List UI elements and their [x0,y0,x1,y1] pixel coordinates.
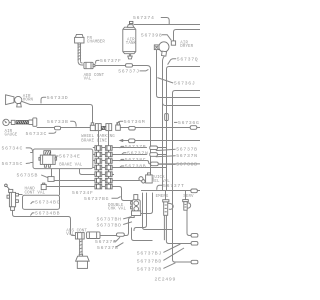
drain valve under tank [128,54,132,59]
svg-text:56737N: 56737N [127,150,149,156]
svg-text:2E2499: 2E2499 [155,276,177,282]
svg-text:56734E: 56734E [59,154,81,160]
label 56737J [118,69,148,75]
svg-text:56736G: 56736G [178,120,200,126]
ABS control valve front [84,62,95,68]
rail fittings r3 [95,159,112,164]
svg-text:56733D: 56733D [47,95,69,101]
frame box bottom left corner [132,228,153,241]
wire brake valve box down to hand valve box [59,169,61,195]
svg-text:56737BJ: 56737BJ [137,251,162,257]
rail fittings r4 [95,165,112,170]
wire top right box edge [174,30,201,41]
gauge hose end fitting [29,118,37,126]
label 56737B hose [97,243,123,252]
rung 3 [93,160,147,162]
label ABS CONT VAL rear [66,230,87,238]
wire ABS valve to right, down at x=150 [95,66,151,174]
label 56737BG [84,196,121,202]
svg-text:56737T: 56737T [163,183,185,189]
rail fittings r7 [95,184,112,189]
rail A top cross fitting [95,124,101,131]
brake valve [39,151,57,168]
svg-text:56735C: 56735C [2,161,24,167]
frame box B right [173,91,201,263]
svg-text:56738B: 56738B [125,164,147,170]
svg-text:56737B: 56737B [125,144,147,150]
label 56737B rung1 [120,144,147,150]
fitting bottom right 2 [191,234,198,238]
double check valve [131,195,141,216]
svg-text:56737F: 56737F [100,58,122,64]
label 56737BD bottom [137,248,184,265]
hatch hose segment on main wire [102,126,106,129]
rung 1 [93,147,147,149]
rail fittings r2 [95,152,112,157]
safety valve on tank [127,21,133,27]
label FR CHAMBER [87,37,105,45]
svg-text:56733C: 56733C [26,131,48,137]
rung 7 wire to double check valve [46,187,132,201]
wire emerg coupler to fitting [166,215,191,243]
svg-text:56737Q: 56737Q [177,56,199,62]
label AIR DRYER [180,41,193,49]
rail fittings r6 [95,178,112,183]
wire manifold drop 2 [134,193,147,231]
wire air dryer left line turning right [157,95,201,97]
svg-text:56733B: 56733B [47,119,69,125]
svg-text:56734BC: 56734BC [35,200,60,206]
branch wire to right at y=105.8 [163,103,201,105]
svg-text:56737BD: 56737BD [137,259,162,265]
label 56733B [47,119,76,127]
wire hand valve upper port [18,194,22,196]
port stub 56735C [30,162,33,164]
svg-text:56737BG: 56737BG [84,196,109,202]
label WHEEL PARKING BRAKE LINE [81,135,115,143]
fitting bottom right 1 [191,242,198,246]
label 56734E [55,154,81,160]
rung 6 wire to quick release valve [54,180,139,182]
label 56737G [95,237,120,245]
RR brake chamber [76,254,90,268]
svg-text:EMERG: EMERG [156,195,169,199]
air horn [6,95,22,107]
svg-text:CHK VAL: CHK VAL [108,208,126,212]
manifold wire emerg serv [141,190,200,192]
hose to RR chamber [79,239,83,256]
label 56737BJ [137,244,181,257]
rung 2 [93,154,147,156]
label 56738C rung3 [120,157,147,163]
label 56737Q [168,56,199,64]
junction elbow left of rail A [90,123,95,131]
wire tank to right edge [134,24,200,26]
svg-text:56738B: 56738B [176,161,198,167]
wire manifold drop 3 [140,193,152,214]
label AIR HORN [23,95,34,102]
ladder rail B [108,131,110,187]
port stub 56734C [30,152,33,154]
svg-text:56737BD: 56737BD [97,222,122,228]
emerg coupler [163,191,173,216]
svg-text:56734F: 56734F [72,190,94,196]
rung 2 extension [154,154,166,156]
fitting on wire [126,64,133,67]
fitting 56736M on main wire [129,126,136,130]
svg-text:CHAMBER: CHAMBER [87,41,105,45]
rung 4 [93,167,167,169]
label 56734BB [30,211,60,217]
label 56733D [41,95,68,103]
hand control valve [5,184,19,210]
svg-text:VAL: VAL [84,78,92,82]
wire manifold drop 1 to bottom stub [143,193,173,230]
label 56735B [17,173,48,179]
wire serv coupler to fitting [187,210,191,235]
label ABS CONT VAL front [84,74,105,82]
svg-text:GAUGE: GAUGE [5,134,18,138]
fitting on manifold wire [191,189,197,193]
rail fittings r1 [95,146,112,151]
coiled gauge hose [16,121,29,124]
label 56737T [157,183,185,190]
label 56736M [117,119,145,125]
air tank [123,27,136,54]
junction elbow right of rail B [116,123,121,131]
svg-text:VAL: VAL [66,233,74,237]
label 56735C [2,161,31,167]
svg-text:567374: 567374 [133,15,155,21]
svg-text:56737BH: 56737BH [97,217,122,223]
wire ABS rear to double check valve [100,216,134,236]
label HAND CONT VAL [25,187,46,195]
label AIR TANK [126,38,137,46]
inline fitting rung2 [150,153,158,157]
label 567398 [141,33,171,41]
FR brake chamber [75,34,84,45]
svg-text:BRAKE VAL: BRAKE VAL [59,164,83,168]
air dryer [154,42,169,56]
wire air dryer left port down [156,50,158,96]
ladder rail A [98,131,100,187]
svg-text:56736M: 56736M [124,119,146,125]
svg-text:56737J: 56737J [118,69,140,75]
svg-text:BRAKE LINE: BRAKE LINE [81,139,107,143]
svg-text:SERV: SERV [183,195,194,199]
label 56737N rung2 [122,150,149,156]
rung 3 extension [147,161,200,164]
label 56738B right [159,161,198,167]
brake valve box [33,149,93,169]
label 56737N right [156,153,198,159]
label AIR GAUGE [5,130,18,138]
label DOUBLE CHK VAL [108,204,126,212]
svg-text:56738C: 56738C [125,157,147,163]
tee fitting rear [75,233,84,239]
svg-text:56736J: 56736J [174,81,196,87]
svg-text:DRYER: DRYER [180,45,193,49]
svg-text:TANK: TANK [126,42,137,46]
rung 6 stem and fitting [48,169,54,182]
main supply wire y=128 [37,127,200,129]
frame box A top right [167,67,201,191]
label 567374 [133,15,169,24]
ABS control valve rear [87,232,100,239]
svg-text:56735B: 56735B [17,173,39,179]
rail fittings r5 [95,172,112,177]
parking arrow wire y=140.8 [119,139,200,143]
hose from FR chamber to ABS valve [78,45,84,65]
label 56736G [174,120,200,126]
label 56737DB [137,263,176,273]
hand valve assembly box [23,195,60,209]
label 56737F [96,58,122,64]
rail B top cross fitting [106,124,112,131]
label 56738B rung4 [120,164,147,170]
inline fitting rung3 [151,162,159,166]
quick release valve [139,173,152,183]
fitting bottom right 3 [191,260,198,264]
fitting on rear brake wire [117,233,125,236]
label 56734BC [31,200,61,206]
fitting 56733C on main wire [55,126,61,130]
svg-text:56734C: 56734C [2,145,24,151]
inline fitting rung1 [150,146,158,150]
air gauge [3,119,15,125]
svg-text:56737B: 56737B [176,147,198,153]
label 56734F [72,190,94,196]
label 56736J [157,78,195,87]
rung 5 [80,169,115,175]
fitting above air dryer [171,41,175,45]
rung 1 extension [154,147,166,149]
label 56733C [26,131,57,137]
label QUICK REL VAL [152,176,170,184]
serv coupler [183,191,191,211]
wire air horn to junction [22,101,93,123]
hose emerg coupler down [163,215,165,240]
wire hand valve bottom to ABS valve rear [13,210,76,235]
label 56737BH [97,217,132,223]
fitting on main wire right [190,126,197,130]
svg-text:56737G: 56737G [95,239,117,245]
svg-text:567398: 567398 [141,33,163,39]
svg-text:56737N: 56737N [176,153,198,159]
rung 7 start valve [41,183,46,189]
label 56737B right [156,147,198,153]
svg-text:56737DB: 56737DB [137,267,162,273]
label 56737BD dcv [97,222,133,229]
inline fitting on vertical wire [165,114,169,121]
svg-text:56734BB: 56734BB [35,211,60,217]
svg-text:56737B: 56737B [97,245,119,251]
label 56734C [2,145,33,152]
wire air dryer bottom port down [163,56,165,191]
